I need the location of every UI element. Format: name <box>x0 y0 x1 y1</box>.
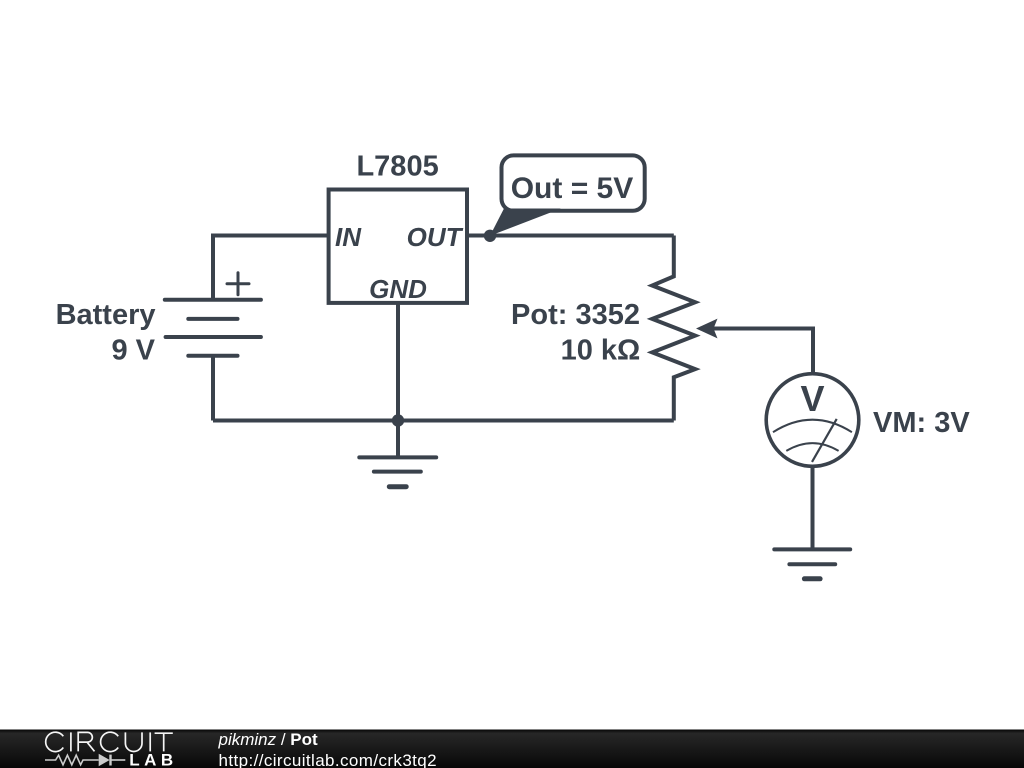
svg-text:10 kΩ: 10 kΩ <box>561 335 641 367</box>
wire voltmeter to ground <box>811 466 815 549</box>
svg-text:GND: GND <box>369 274 427 304</box>
svg-text:L7805: L7805 <box>356 150 438 182</box>
wire OUT net (regulator OUT to pot top) <box>467 234 674 238</box>
logo resistor-diode line <box>45 755 125 766</box>
svg-text:IN: IN <box>335 222 362 252</box>
svg-text:Pot: 3352: Pot: 3352 <box>511 299 640 331</box>
junction dot GND rail <box>392 414 404 426</box>
svg-text:pikminz / Pot: pikminz / Pot <box>218 730 319 749</box>
svg-text:9 V: 9 V <box>111 335 155 367</box>
potentiometer label Pot: 3352 / 10 kOhm <box>511 299 640 366</box>
node OUT junction dot <box>484 230 496 242</box>
logo CIRCUIT lettering <box>46 732 173 751</box>
svg-text:V: V <box>800 378 824 419</box>
wire wiper to voltmeter <box>700 329 813 375</box>
wire battery negative to bottom rail <box>211 356 215 421</box>
svg-text:Out = 5V: Out = 5V <box>511 172 634 205</box>
callout bubble Out = 5V <box>490 155 645 235</box>
wire GND from regulator to ground <box>396 303 400 458</box>
svg-text:Battery: Battery <box>56 299 156 331</box>
footer bar <box>0 730 1024 768</box>
svg-text:http://circuitlab.com/crk3tq2: http://circuitlab.com/crk3tq2 <box>219 751 438 768</box>
ground symbol (voltmeter) <box>774 549 850 578</box>
potentiometer POT1 zigzag <box>652 236 695 421</box>
wire bottom rail <box>213 419 674 423</box>
potentiometer wiper arrow <box>696 319 718 339</box>
regulator U1 L7805 box <box>329 190 467 303</box>
battery label Battery 9 V <box>56 299 156 366</box>
battery BAT1 <box>165 273 261 356</box>
logo diode triangle <box>99 754 110 766</box>
ground symbol (main) <box>359 457 436 486</box>
wire IN net (battery + to regulator IN) <box>213 236 329 300</box>
svg-text:OUT: OUT <box>407 222 464 252</box>
voltmeter VM1 <box>766 374 859 467</box>
svg-text:LAB: LAB <box>129 751 177 768</box>
svg-text:VM: 3V: VM: 3V <box>873 407 970 439</box>
